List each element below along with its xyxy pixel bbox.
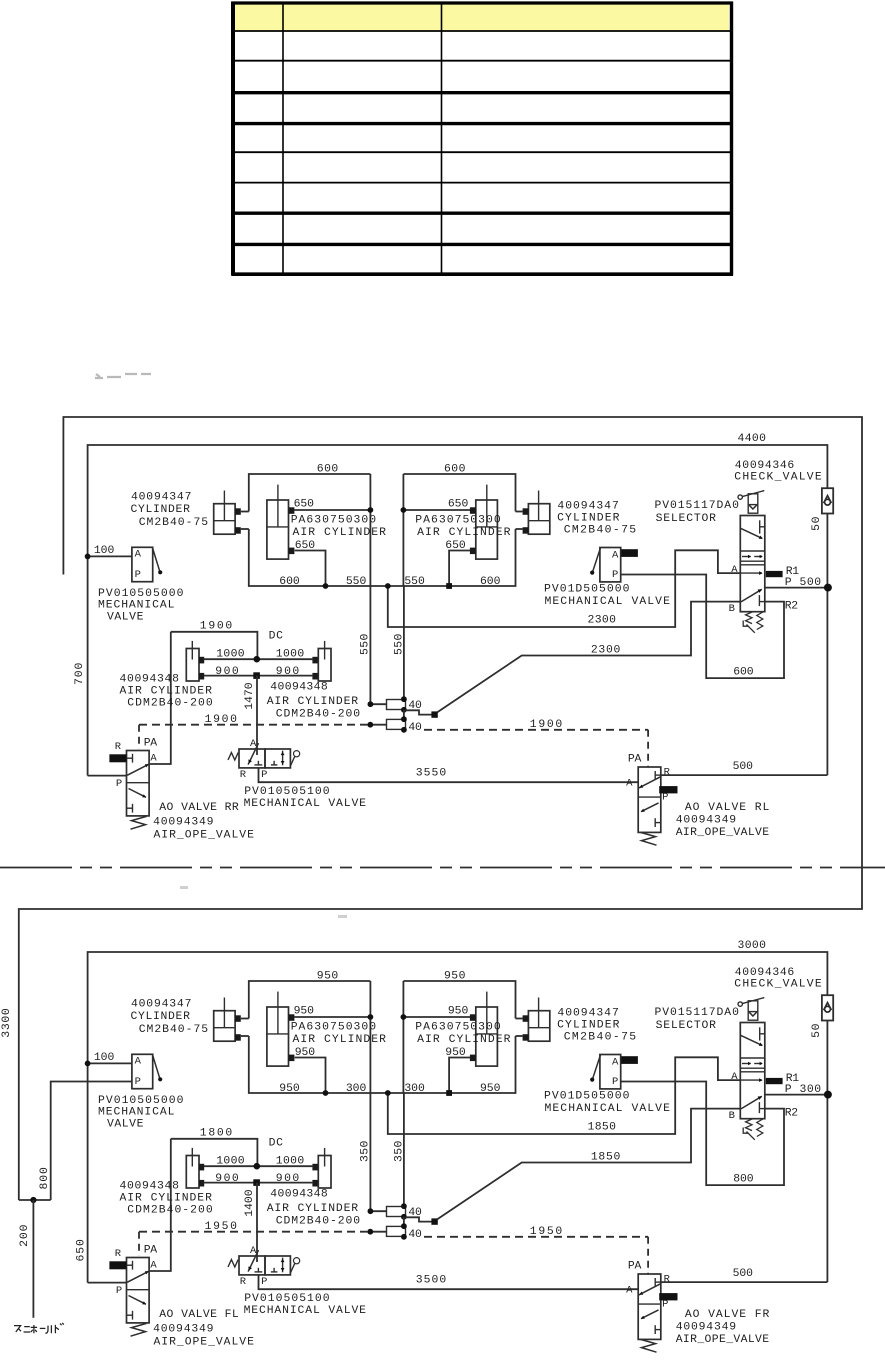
AO valve RR 40094349 (circuit 1) bbox=[127, 751, 150, 816]
svg-text:550: 550 bbox=[346, 576, 367, 588]
svg-text:350: 350 bbox=[359, 1140, 371, 1162]
svg-text:AIR CYLINDER: AIR CYLINDER bbox=[267, 696, 359, 708]
svg-text:100: 100 bbox=[94, 1052, 115, 1064]
svg-text:1950: 1950 bbox=[530, 1226, 563, 1238]
svg-text:VALVE: VALVE bbox=[107, 1118, 144, 1130]
selector exhaust springs (circuit 2) bbox=[746, 1119, 752, 1131]
check valve 40094346 (circuit 1) bbox=[822, 488, 833, 513]
svg-text:R: R bbox=[115, 1248, 122, 1260]
svg-text:MECHANICAL: MECHANICAL bbox=[98, 1107, 175, 1119]
wire diagonal pilot to selector B 1850 (circuit 2) bbox=[437, 1109, 740, 1220]
svg-text:P: P bbox=[261, 769, 268, 781]
AO valve FR 40094349 (circuit 2) bbox=[638, 1274, 661, 1339]
svg-text:3500: 3500 bbox=[416, 1275, 447, 1287]
svg-text:1000: 1000 bbox=[276, 648, 305, 660]
wire dashed pilot 1950 to AO valve FR (circuit 2) bbox=[424, 1236, 648, 1238]
faint scan marks bbox=[95, 374, 151, 378]
svg-text:R1: R1 bbox=[786, 1073, 800, 1085]
svg-text:SELECTOR: SELECTOR bbox=[656, 513, 717, 525]
selector exhaust springs (circuit 1) bbox=[746, 612, 752, 624]
svg-text:AIR CYLINDER: AIR CYLINDER bbox=[293, 1034, 387, 1046]
svg-text:AO VALVE FR: AO VALVE FR bbox=[685, 1309, 770, 1321]
svg-text:PV010505000: PV010505000 bbox=[98, 588, 184, 600]
mechanical valve PV010505000 right (circuit 2) bbox=[600, 1055, 621, 1089]
svg-text:550: 550 bbox=[393, 633, 405, 655]
wire 100 from supply to valve A (circuit 2) bbox=[88, 1062, 132, 1064]
svg-text:PA630750300: PA630750300 bbox=[415, 514, 501, 526]
cylinder 40094347 CM2B40-75 right (circuit 1) bbox=[528, 504, 549, 535]
wire CM right ports to box (circuit 2) bbox=[516, 1018, 523, 1020]
svg-text:1000: 1000 bbox=[276, 1155, 305, 1167]
svg-text:P: P bbox=[662, 792, 669, 804]
wire supply loop from circuit-1 mech valve P around page to circuit-2 and manifold bbox=[19, 417, 862, 1200]
svg-text:50: 50 bbox=[811, 1023, 823, 1038]
parts table header fill bbox=[235, 5, 729, 32]
svg-text:AIR CYLINDER: AIR CYLINDER bbox=[120, 685, 213, 697]
node tee between boxes (circuit 1) bbox=[385, 583, 391, 589]
wire between box bottoms with tee to selector A (circuit 2) bbox=[370, 1092, 403, 1094]
svg-text:CYLINDER: CYLINDER bbox=[557, 512, 620, 524]
svg-text:AIR_OPE_VALVE: AIR_OPE_VALVE bbox=[676, 827, 770, 839]
wire CM left bottom port to box (circuit 1) bbox=[241, 528, 249, 530]
wire 1400 down to mechanical valve A (circuit 2) bbox=[256, 1183, 258, 1262]
svg-text:950: 950 bbox=[317, 971, 339, 983]
check valve 40094346 (circuit 2) bbox=[822, 995, 833, 1020]
svg-text:R2: R2 bbox=[785, 601, 799, 613]
svg-text:1900: 1900 bbox=[530, 719, 563, 731]
svg-text:200: 200 bbox=[19, 1224, 31, 1247]
wire dashed pilot 1900 to AO valve RL (circuit 1) bbox=[424, 729, 648, 731]
air cylinder PA630750300 right (circuit 2) bbox=[476, 1007, 498, 1066]
svg-text:40: 40 bbox=[408, 722, 422, 734]
svg-text:B: B bbox=[729, 603, 736, 615]
wire 1470 down to mechanical valve A (circuit 1) bbox=[256, 676, 258, 755]
svg-text:CDM2B40-200: CDM2B40-200 bbox=[127, 1205, 213, 1217]
node on box2 bottom edge (circuit 2) bbox=[446, 1090, 452, 1096]
wire loop box right 950 (circuit 2) bbox=[403, 981, 515, 1019]
node junction on supply line (circuit 1) bbox=[85, 554, 91, 560]
node manifold tee bbox=[30, 1197, 36, 1203]
svg-text:650: 650 bbox=[295, 540, 316, 552]
svg-text:MECHANICAL: MECHANICAL bbox=[98, 600, 175, 612]
svg-text:PV010505100: PV010505100 bbox=[244, 1293, 330, 1305]
svg-text:100: 100 bbox=[94, 545, 115, 557]
restrictor 40 lower (circuit 1) bbox=[370, 724, 386, 726]
node tee between boxes (circuit 2) bbox=[385, 1090, 391, 1096]
svg-text:CYLINDER: CYLINDER bbox=[131, 504, 191, 516]
node on box2 left edge (circuit 2) bbox=[401, 1014, 407, 1020]
svg-text:CM2B40-75: CM2B40-75 bbox=[139, 1024, 209, 1036]
svg-text:AIR CYLINDER: AIR CYLINDER bbox=[267, 1203, 359, 1215]
svg-text:AIR_OPE_VALVE: AIR_OPE_VALVE bbox=[676, 1334, 770, 1346]
wire 1000 between CDM cylinders (circuit 2) bbox=[204, 1165, 314, 1167]
svg-text:AO VALVE RL: AO VALVE RL bbox=[685, 802, 770, 814]
svg-text:1000: 1000 bbox=[216, 1155, 245, 1167]
wire valve P to selector R2 loop 600 (circuit 1) bbox=[621, 575, 784, 679]
wire dashed pilot 1900 to AO valve RR (circuit 1) bbox=[139, 724, 370, 726]
svg-text:R2: R2 bbox=[785, 1108, 799, 1120]
wire 3500 from valve P to AO valve FR A (circuit 2) bbox=[259, 1275, 639, 1289]
node on 1000 wire (circuit 1) bbox=[253, 656, 260, 663]
nodes restrictor lower (circuit 1) bbox=[367, 722, 373, 728]
svg-text:DC: DC bbox=[269, 1138, 284, 1150]
svg-text:SELECTOR: SELECTOR bbox=[656, 1020, 717, 1032]
svg-text:40094347: 40094347 bbox=[131, 999, 192, 1011]
svg-text:PV015117DA0: PV015117DA0 bbox=[655, 500, 740, 512]
svg-text:650: 650 bbox=[448, 499, 469, 511]
svg-text:MECHANICAL VALVE: MECHANICAL VALVE bbox=[244, 1305, 367, 1317]
svg-text:2300: 2300 bbox=[588, 615, 617, 627]
svg-text:300: 300 bbox=[346, 1083, 367, 1095]
svg-text:AIR_OPE_VALVE: AIR_OPE_VALVE bbox=[154, 1337, 255, 1349]
mechanical valve PV010505000 right (circuit 1) bbox=[600, 548, 621, 582]
svg-text:40094347: 40094347 bbox=[131, 492, 192, 504]
wire 950 upper right (circuit 2) bbox=[403, 1016, 470, 1018]
svg-text:PV015117DA0: PV015117DA0 bbox=[655, 1007, 740, 1019]
wire restrictor output to junction (circuit 1) bbox=[403, 710, 405, 719]
wire loop box left 950 (circuit 2) bbox=[249, 981, 371, 1019]
svg-text:950: 950 bbox=[294, 1006, 315, 1018]
dashed separator line between circuits bbox=[0, 867, 885, 869]
wire circuit-2 valve P to manifold via 800 branch bbox=[51, 1082, 132, 1201]
wire 350 drop right (circuit 2) bbox=[403, 1093, 405, 1206]
table borders and column lines bbox=[231, 2, 235, 276]
svg-text:950: 950 bbox=[480, 1083, 501, 1095]
svg-text:1950: 1950 bbox=[205, 1221, 238, 1233]
svg-text:40094348: 40094348 bbox=[120, 1181, 180, 1193]
svg-text:40094349: 40094349 bbox=[676, 1321, 737, 1333]
svg-text:MECHANICAL VALVE: MECHANICAL VALVE bbox=[545, 1103, 671, 1115]
svg-text:300: 300 bbox=[404, 1083, 425, 1095]
svg-text:3000: 3000 bbox=[738, 940, 767, 952]
svg-text:40094346: 40094346 bbox=[735, 967, 795, 979]
svg-text:PV010505000: PV010505000 bbox=[98, 1095, 184, 1107]
svg-text:40094348: 40094348 bbox=[270, 1189, 328, 1201]
svg-text:PV01D505000: PV01D505000 bbox=[544, 1091, 630, 1103]
node on box1 right edge (circuit 1) bbox=[368, 507, 374, 513]
svg-text:MECHANICAL VALVE: MECHANICAL VALVE bbox=[244, 798, 367, 810]
svg-text:VALVE: VALVE bbox=[107, 611, 144, 623]
air cylinder 40094348 CDM2B40-200 right (circuit 1) bbox=[318, 649, 331, 682]
wire 500 AO valve FR R to supply (circuit 2) bbox=[661, 1281, 828, 1283]
wire P P 500 to supply (circuit 1) bbox=[765, 587, 828, 589]
svg-text:A: A bbox=[150, 752, 157, 764]
svg-text:P: P bbox=[612, 569, 619, 581]
svg-text:1900: 1900 bbox=[200, 620, 233, 632]
node output junction square (circuit 2) bbox=[431, 1218, 437, 1224]
svg-text:P: P bbox=[116, 778, 123, 790]
nodes restrictor upper (circuit 1) bbox=[368, 701, 374, 707]
wire supply into AO valve RR P (circuit 1) bbox=[88, 775, 127, 777]
wire CM right ports to box (circuit 1) bbox=[516, 511, 523, 513]
svg-text:650: 650 bbox=[294, 499, 315, 511]
svg-text:1800: 1800 bbox=[200, 1127, 233, 1139]
cylinder 40094347 CM2B40-75 right (circuit 2) bbox=[528, 1011, 549, 1041]
air cylinder PA630750300 left (circuit 2) bbox=[267, 1007, 289, 1066]
svg-text:P: P bbox=[662, 1299, 669, 1311]
cylinder 40094347 CM2B40-75 left (circuit 1) bbox=[214, 504, 235, 535]
svg-text:A: A bbox=[612, 550, 619, 562]
table row lines bbox=[232, 1, 734, 4]
node output junction square (circuit 1) bbox=[431, 711, 437, 717]
selector valve PV015117DA0 actuator (circuit 2) bbox=[738, 1002, 742, 1006]
node on box2 left edge (circuit 1) bbox=[401, 507, 407, 513]
svg-text:900: 900 bbox=[215, 666, 239, 678]
svg-text:A: A bbox=[135, 1056, 142, 1068]
nodes restrictor upper (circuit 2) bbox=[368, 1208, 374, 1214]
svg-text:AIR CYLINDER: AIR CYLINDER bbox=[417, 527, 511, 539]
svg-text:600: 600 bbox=[444, 464, 466, 476]
svg-text:40094349: 40094349 bbox=[153, 1324, 214, 1336]
svg-text:500: 500 bbox=[733, 761, 754, 773]
svg-text:R: R bbox=[664, 767, 671, 779]
wire 3550 from valve P to AO valve RL A (circuit 1) bbox=[259, 768, 639, 782]
wire 650 lower left (circuit 1) bbox=[295, 551, 326, 587]
svg-text:AIR CYLINDER: AIR CYLINDER bbox=[293, 527, 387, 539]
wire CM left top port to box (circuit 1) bbox=[241, 511, 249, 513]
node P junction (circuit 2) bbox=[824, 1091, 832, 1099]
wire CM left top port to box (circuit 2) bbox=[241, 1018, 249, 1020]
svg-text:950: 950 bbox=[445, 1047, 466, 1059]
svg-text:2300: 2300 bbox=[591, 645, 621, 657]
svg-text:40: 40 bbox=[408, 1229, 422, 1241]
svg-text:CYLINDER: CYLINDER bbox=[131, 1011, 191, 1023]
svg-text:1850: 1850 bbox=[588, 1122, 617, 1134]
wire 650 upper right (circuit 1) bbox=[403, 509, 470, 511]
wire dashed pilot 1950 to AO valve FL (circuit 2) bbox=[139, 1231, 370, 1233]
wire between box bottoms with tee to selector A (circuit 1) bbox=[370, 585, 403, 587]
svg-text:B: B bbox=[729, 1110, 736, 1122]
svg-text:P: P bbox=[135, 569, 142, 581]
node P junction (circuit 1) bbox=[824, 584, 832, 592]
svg-text:PA: PA bbox=[144, 1245, 158, 1257]
wire 1000 between CDM cylinders (circuit 1) bbox=[204, 658, 314, 660]
svg-text:P: P bbox=[261, 1276, 268, 1288]
label manifold (katakana) bbox=[14, 1323, 64, 1333]
svg-text:550: 550 bbox=[404, 576, 425, 588]
svg-text:900: 900 bbox=[215, 1173, 239, 1185]
mechanical valve PV010505100 (circuit 2) bbox=[239, 1256, 265, 1275]
nodes restrictor lower (circuit 2) bbox=[367, 1229, 373, 1235]
restrictor 40 upper (circuit 1) bbox=[370, 703, 386, 705]
mechanical valve PV010505000 left (circuit 2) bbox=[132, 1054, 153, 1088]
wire check valve outlet down to AO valve RL R port (circuit 1) bbox=[826, 514, 828, 776]
svg-text:AIR_OPE_VALVE: AIR_OPE_VALVE bbox=[154, 830, 255, 842]
node on box2 bottom edge (circuit 1) bbox=[446, 583, 452, 589]
svg-text:650: 650 bbox=[75, 1239, 87, 1262]
svg-text:A: A bbox=[135, 549, 142, 561]
wire AO valve FL A port from cylinder box (circuit 2) bbox=[149, 1139, 171, 1271]
wire main supply line 3000 (circuit 2) bbox=[88, 952, 828, 1283]
svg-text:600: 600 bbox=[733, 666, 754, 678]
svg-text:1400: 1400 bbox=[244, 1189, 256, 1217]
wire restrictor output to junction (circuit 2) bbox=[403, 1217, 405, 1226]
svg-text:800: 800 bbox=[733, 1173, 754, 1185]
svg-text:P: P bbox=[135, 1076, 142, 1088]
wire 950 upper left (circuit 2) bbox=[294, 1016, 370, 1018]
AO valve RL 40094349 (circuit 1) bbox=[638, 767, 661, 832]
svg-text:A: A bbox=[731, 1071, 738, 1083]
svg-text:P: P bbox=[612, 1076, 619, 1088]
svg-text:1000: 1000 bbox=[216, 648, 245, 660]
svg-text:1470: 1470 bbox=[244, 682, 256, 710]
svg-text:AO VALVE RR: AO VALVE RR bbox=[159, 802, 239, 814]
svg-text:PA630750300: PA630750300 bbox=[291, 1021, 377, 1033]
svg-text:950: 950 bbox=[295, 1047, 316, 1059]
wire valve P to selector R2 loop 800 (circuit 2) bbox=[621, 1082, 784, 1186]
svg-text:A: A bbox=[612, 1057, 619, 1069]
svg-text:AIR CYLINDER: AIR CYLINDER bbox=[120, 1192, 213, 1204]
svg-text:600: 600 bbox=[279, 576, 300, 588]
node on box1 bottom edge (circuit 2) bbox=[323, 1090, 329, 1096]
wire diagonal pilot to selector B 2300 (circuit 1) bbox=[437, 602, 740, 713]
node on 1000 wire (circuit 2) bbox=[253, 1163, 260, 1170]
svg-text:4400: 4400 bbox=[738, 433, 767, 445]
air cylinder PA630750300 left (circuit 1) bbox=[267, 500, 289, 559]
svg-text:40094349: 40094349 bbox=[676, 814, 737, 826]
svg-text:CYLINDER: CYLINDER bbox=[557, 1019, 620, 1031]
svg-text:CHECK_VALVE: CHECK_VALVE bbox=[734, 979, 822, 991]
wire P P 300 to supply (circuit 2) bbox=[765, 1094, 828, 1096]
svg-text:AIR CYLINDER: AIR CYLINDER bbox=[417, 1034, 511, 1046]
svg-text:40094349: 40094349 bbox=[153, 817, 214, 829]
wire loop 1900 top (circuit 1) bbox=[171, 632, 258, 659]
svg-text:A: A bbox=[626, 1285, 633, 1297]
svg-text:550: 550 bbox=[359, 633, 371, 655]
svg-text:900: 900 bbox=[276, 1173, 300, 1185]
cylinder 40094347 CM2B40-75 left (circuit 2) bbox=[214, 1011, 235, 1041]
wire 900 between CDM cylinders (circuit 2) bbox=[204, 1182, 314, 1184]
svg-text:R1: R1 bbox=[786, 566, 800, 578]
svg-text:50: 50 bbox=[811, 516, 823, 531]
svg-text:800: 800 bbox=[39, 1167, 51, 1190]
svg-text:AO VALVE FL: AO VALVE FL bbox=[159, 1309, 239, 1321]
wire main supply line 4400 (circuit 1) bbox=[88, 445, 828, 776]
node junction on supply line (circuit 2) bbox=[85, 1061, 91, 1067]
svg-text:CM2B40-75: CM2B40-75 bbox=[564, 525, 637, 537]
svg-text:R: R bbox=[664, 1274, 671, 1286]
mechanical valve PV010505100 (circuit 1) bbox=[239, 749, 265, 768]
svg-text:PA630750300: PA630750300 bbox=[415, 1021, 501, 1033]
svg-text:600: 600 bbox=[317, 464, 339, 476]
wire 650 upper left (circuit 1) bbox=[294, 509, 370, 511]
svg-text:P: P bbox=[116, 1285, 123, 1297]
svg-text:PV010505100: PV010505100 bbox=[244, 786, 330, 798]
selector valve PV015117DA0 body (circuit 1) bbox=[740, 516, 765, 612]
wire 950 lower left (circuit 2) bbox=[295, 1058, 326, 1094]
svg-text:40094348: 40094348 bbox=[270, 682, 328, 694]
svg-text:350: 350 bbox=[393, 1140, 405, 1162]
port R1 muffler (circuit 1) bbox=[766, 571, 783, 577]
wire 900 between CDM cylinders (circuit 1) bbox=[204, 675, 314, 677]
svg-text:PA: PA bbox=[144, 738, 158, 750]
svg-text:A: A bbox=[731, 564, 738, 576]
wire loop box right 600 (circuit 1) bbox=[403, 474, 515, 512]
svg-text:R: R bbox=[240, 769, 247, 781]
AO valve FL 40094349 (circuit 2) bbox=[127, 1258, 150, 1323]
wire CM left bottom port to box (circuit 2) bbox=[241, 1035, 249, 1037]
air cylinder 40094348 CDM2B40-200 right (circuit 2) bbox=[318, 1156, 331, 1189]
wire 100 from supply to valve A (circuit 1) bbox=[88, 555, 132, 557]
svg-text:700: 700 bbox=[74, 662, 86, 685]
wire 350 drop left (circuit 2) bbox=[369, 1093, 371, 1211]
wire supply into AO valve FL P (circuit 2) bbox=[88, 1282, 127, 1284]
selector valve PV015117DA0 body (circuit 2) bbox=[740, 1023, 765, 1119]
svg-text:CM2B40-75: CM2B40-75 bbox=[139, 517, 209, 529]
wire manifold header bbox=[19, 1199, 51, 1201]
air cylinder 40094348 CDM2B40-200 left (circuit 2) bbox=[186, 1156, 199, 1189]
wire 500 AO valve RL R to supply (circuit 1) bbox=[661, 774, 828, 776]
restrictor 40 lower (circuit 2) bbox=[370, 1231, 386, 1233]
svg-text:PV01D505000: PV01D505000 bbox=[544, 584, 630, 596]
node square on 900 wire (circuit 1) bbox=[253, 672, 260, 679]
svg-text:MECHANICAL VALVE: MECHANICAL VALVE bbox=[545, 596, 671, 608]
svg-text:500: 500 bbox=[733, 1268, 754, 1280]
svg-text:PA: PA bbox=[628, 1261, 642, 1273]
svg-text:900: 900 bbox=[276, 666, 300, 678]
svg-text:A: A bbox=[626, 778, 633, 790]
svg-text:1850: 1850 bbox=[591, 1152, 621, 1164]
air cylinder 40094348 CDM2B40-200 left (circuit 1) bbox=[186, 649, 199, 682]
selector valve PV015117DA0 actuator (circuit 1) bbox=[738, 495, 742, 499]
wire loop 1800 top (circuit 2) bbox=[171, 1139, 258, 1166]
wire 650 lower right (circuit 1) bbox=[449, 551, 470, 587]
svg-text:1900: 1900 bbox=[205, 714, 238, 726]
svg-text:40094348: 40094348 bbox=[120, 674, 180, 686]
svg-text:950: 950 bbox=[448, 1006, 469, 1018]
svg-text:CHECK_VALVE: CHECK_VALVE bbox=[734, 472, 822, 484]
restrictor 40 upper (circuit 2) bbox=[370, 1210, 386, 1212]
svg-text:PA: PA bbox=[628, 754, 642, 766]
svg-text:PA630750300: PA630750300 bbox=[291, 514, 377, 526]
svg-text:40094346: 40094346 bbox=[735, 460, 795, 472]
svg-text:A: A bbox=[150, 1259, 157, 1271]
svg-text:R: R bbox=[115, 741, 122, 753]
svg-text:40094347: 40094347 bbox=[557, 501, 619, 513]
wire 950 lower right (circuit 2) bbox=[449, 1058, 470, 1094]
node on box1 bottom edge (circuit 1) bbox=[323, 583, 329, 589]
svg-text:40094347: 40094347 bbox=[557, 1008, 619, 1020]
svg-text:950: 950 bbox=[279, 1083, 300, 1095]
mechanical valve PV010505000 left (circuit 1) bbox=[132, 547, 153, 581]
wire AO valve RR A port from cylinder box (circuit 1) bbox=[149, 632, 171, 764]
svg-text:650: 650 bbox=[445, 540, 466, 552]
svg-text:600: 600 bbox=[480, 576, 501, 588]
svg-text:P 300: P 300 bbox=[785, 1084, 822, 1096]
svg-text:DC: DC bbox=[269, 631, 284, 643]
svg-text:3550: 3550 bbox=[416, 768, 447, 780]
svg-text:950: 950 bbox=[444, 971, 466, 983]
wire 550 drop right (circuit 1) bbox=[403, 586, 405, 699]
svg-text:CDM2B40-200: CDM2B40-200 bbox=[276, 708, 361, 720]
air cylinder PA630750300 right (circuit 1) bbox=[476, 500, 498, 559]
wire check valve outlet down to AO valve FR R port (circuit 2) bbox=[826, 1021, 828, 1283]
wire loop box left 600 (circuit 1) bbox=[249, 474, 371, 512]
svg-text:R: R bbox=[240, 1276, 247, 1288]
svg-text:CDM2B40-200: CDM2B40-200 bbox=[276, 1215, 361, 1227]
wire 550 drop left (circuit 1) bbox=[369, 586, 371, 704]
svg-text:P 500: P 500 bbox=[785, 577, 822, 589]
port R1 muffler (circuit 2) bbox=[766, 1078, 783, 1084]
node square on 900 wire (circuit 2) bbox=[253, 1179, 260, 1186]
node on box1 right edge (circuit 2) bbox=[368, 1014, 374, 1020]
svg-text:3300: 3300 bbox=[1, 1008, 13, 1038]
svg-text:CDM2B40-200: CDM2B40-200 bbox=[127, 698, 213, 710]
wire manifold stub 200 bbox=[32, 1200, 34, 1318]
svg-text:CM2B40-75: CM2B40-75 bbox=[564, 1032, 637, 1044]
